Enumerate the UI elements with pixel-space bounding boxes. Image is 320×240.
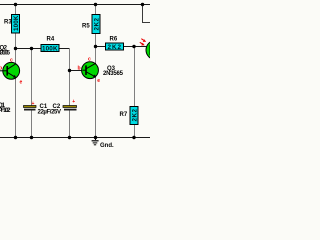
wire node A down to C1 top (31, 49, 33, 106)
capacitor C2 (63, 106, 77, 111)
wire V+ rail corner branch to right edge (143, 5, 151, 23)
svg-text:R5: R5 (82, 24, 90, 30)
wire R7 bottom to ground rail (134, 125, 136, 138)
svg-text:100K: 100K (42, 46, 58, 53)
resistor R6 (106, 43, 124, 51)
svg-text:R3: R3 (4, 20, 12, 26)
wire corner down to Q3 base node (69, 49, 71, 71)
svg-text:e: e (20, 80, 23, 86)
svg-text:2K2: 2K2 (131, 109, 138, 122)
photo arrows into Q4 (140, 39, 146, 46)
svg-text:2K2: 2K2 (93, 18, 100, 31)
resistor R5 (92, 15, 100, 34)
wire R4 right to corner (59, 48, 70, 50)
wire V+ rail to R3 top (15, 5, 17, 16)
phototransistor Q4 (cropped at right edge) (146, 41, 165, 60)
junction V+ rail / corner branch (141, 3, 144, 6)
svg-text:R7: R7 (120, 112, 128, 118)
resistor R4 (41, 45, 59, 53)
svg-text:2N3565: 2N3565 (103, 71, 124, 77)
wire Q2 collector (15, 49, 17, 65)
junction node A / Q2 collector (14, 47, 17, 50)
svg-text:+: + (32, 101, 35, 107)
wire Q3 base (70, 70, 83, 72)
wire R6 right to phototransistor base (124, 46, 147, 48)
junction node B / Q3 collector (94, 45, 97, 48)
wire Q3 collector (95, 47, 97, 65)
svg-text:R4: R4 (47, 37, 55, 43)
wire Q3 emitter to ground (95, 77, 97, 138)
svg-text:R6: R6 (110, 37, 118, 43)
junction Q3 base / C2 (68, 69, 71, 72)
svg-text:b: b (0, 66, 2, 72)
svg-text:+: + (72, 99, 75, 105)
junction V+ rail / R3 (14, 3, 17, 6)
svg-text:2N3565: 2N3565 (0, 51, 11, 57)
wire node A horizontal to R4 left (16, 48, 42, 50)
wire R3 bottom to node A (15, 33, 17, 49)
label Q3 2N3565 (103, 66, 124, 77)
junction ground rail / C1 (30, 136, 33, 139)
svg-text:Gnd.: Gnd. (100, 143, 114, 149)
label Q1 MPF102 (transistor off-frame left) (0, 103, 11, 114)
resistor R7 (130, 107, 138, 125)
junction ground rail / C2 (68, 136, 71, 139)
svg-text:2K2: 2K2 (108, 44, 122, 51)
wire Q2 emitter to ground rail (15, 78, 17, 138)
transistor Q2 (0, 62, 20, 79)
svg-text:b: b (78, 66, 81, 72)
wire C1 bottom to ground rail (31, 110, 33, 138)
label Q2 2N3565 (0, 46, 11, 57)
wire V+ rail to R5 top (95, 5, 97, 16)
wire Q3 base node down to C2 top (69, 71, 71, 106)
wire bottom ground rail (0, 137, 150, 139)
junction V+ rail / R5 (94, 3, 97, 6)
wire R5 bottom to node B (95, 34, 97, 47)
resistor R3 (12, 15, 20, 34)
junction node C / R7 (132, 45, 135, 48)
wire C2 bottom to ground rail (69, 110, 71, 138)
junction ground rail / Q3 emitter (94, 136, 97, 139)
wire top V+ rail (0, 4, 150, 6)
wire node C down to R7 top (134, 47, 136, 107)
transistor Q3 (82, 62, 99, 79)
svg-text:c: c (10, 58, 13, 64)
junction ground rail / R7 (132, 136, 135, 139)
svg-text:c: c (88, 57, 91, 63)
svg-text:e: e (97, 78, 100, 84)
capacitor C1 (24, 106, 37, 111)
wire node B horizontal to R6 left (96, 46, 106, 48)
junction node A / C1 (30, 47, 33, 50)
svg-text:22µF/25V: 22µF/25V (38, 110, 62, 116)
ground (92, 138, 99, 145)
svg-text:100K: 100K (13, 15, 20, 31)
svg-text:MPF102: MPF102 (0, 108, 11, 114)
junction ground rail / Q2 emitter (14, 136, 17, 139)
